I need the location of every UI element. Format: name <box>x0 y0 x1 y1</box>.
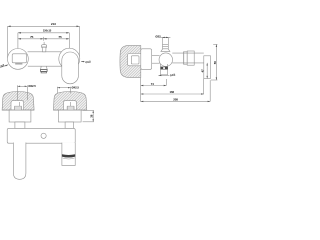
svg-text:213: 213 <box>51 22 56 26</box>
svg-text:G1/2: G1/2 <box>85 59 91 64</box>
svg-text:G1/2: G1/2 <box>169 72 176 77</box>
svg-text:38: 38 <box>89 114 93 118</box>
svg-text:208: 208 <box>173 98 178 102</box>
svg-text:166: 166 <box>170 90 175 94</box>
svg-text:150±15: 150±15 <box>43 29 52 33</box>
svg-text:75: 75 <box>58 35 62 39</box>
svg-text:Ø42.5: Ø42.5 <box>72 86 80 90</box>
svg-text:Ø22: Ø22 <box>155 35 161 39</box>
svg-text:47: 47 <box>200 69 204 73</box>
svg-text:75: 75 <box>30 35 34 39</box>
svg-text:50: 50 <box>213 61 217 65</box>
svg-text:Ø42.5: Ø42.5 <box>28 84 36 88</box>
svg-text:74: 74 <box>151 82 155 86</box>
